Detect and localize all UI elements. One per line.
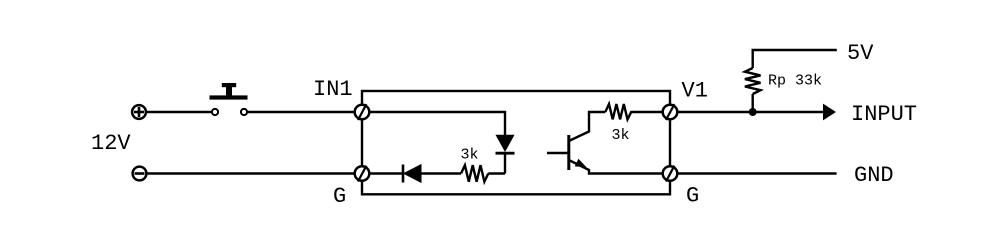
svg-text:12V: 12V <box>91 131 131 156</box>
svg-text:Rp 33k: Rp 33k <box>768 73 822 90</box>
svg-text:IN1: IN1 <box>313 77 353 102</box>
svg-text:G: G <box>686 184 699 209</box>
svg-text:V1: V1 <box>682 79 708 104</box>
svg-text:INPUT: INPUT <box>851 102 917 127</box>
svg-text:5V: 5V <box>847 41 874 66</box>
svg-text:3k: 3k <box>461 147 479 164</box>
svg-text:G: G <box>333 184 346 209</box>
svg-text:3k: 3k <box>612 127 630 144</box>
svg-text:GND: GND <box>854 163 894 188</box>
